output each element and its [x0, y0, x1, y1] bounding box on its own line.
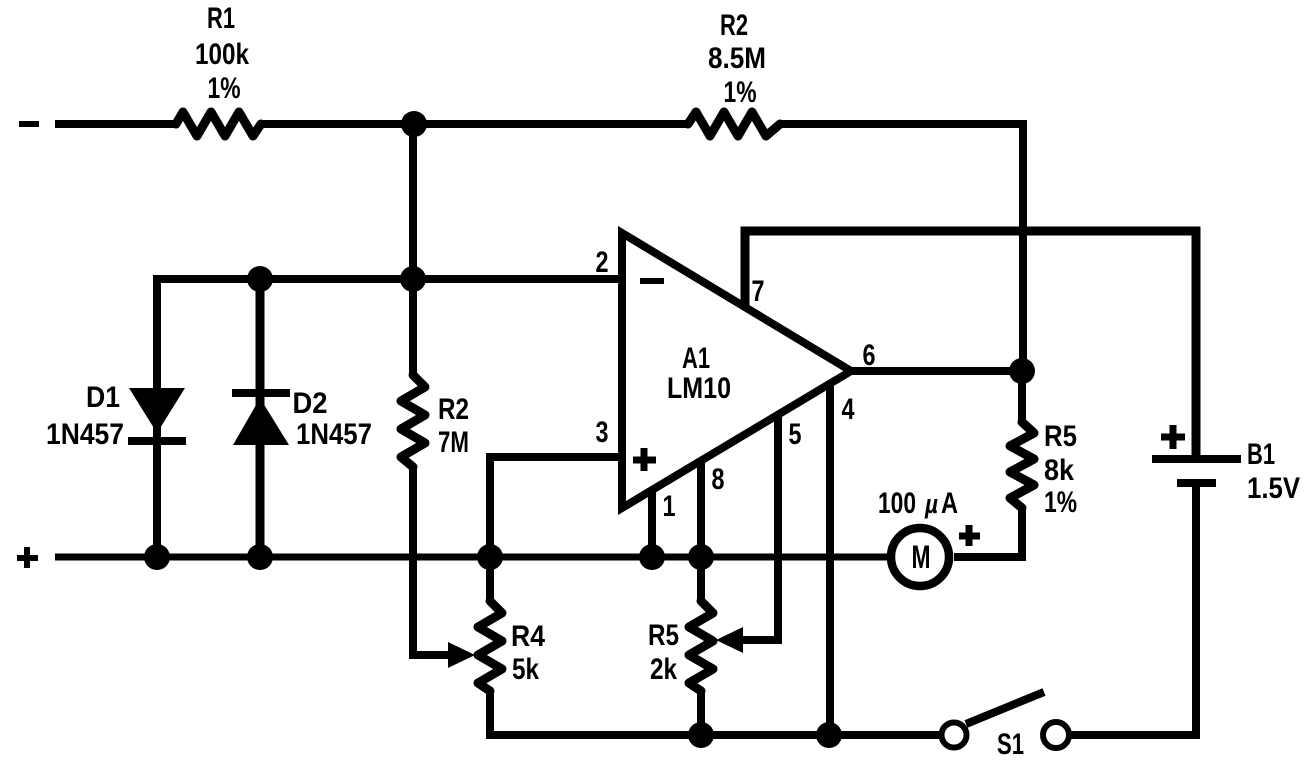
svg-text:8k: 8k [1044, 454, 1074, 487]
svg-text:B1: B1 [1247, 438, 1275, 471]
svg-text:4: 4 [842, 393, 855, 426]
svg-text:2: 2 [596, 246, 609, 279]
svg-text:A1: A1 [682, 342, 710, 375]
svg-text:M: M [912, 539, 931, 575]
svg-text:7M: 7M [438, 426, 469, 459]
svg-text:1%: 1% [208, 72, 241, 105]
svg-text:µ: µ [924, 489, 938, 519]
svg-text:1: 1 [663, 490, 676, 523]
svg-text:1.5V: 1.5V [1247, 472, 1300, 505]
svg-text:6: 6 [863, 339, 876, 372]
svg-text:1%: 1% [1044, 486, 1077, 519]
svg-text:R1: R1 [207, 2, 235, 35]
svg-text:5k: 5k [512, 653, 539, 686]
svg-text:R4: R4 [511, 620, 545, 653]
svg-text:100: 100 [878, 487, 916, 520]
svg-text:1%: 1% [724, 76, 757, 109]
svg-text:8: 8 [712, 463, 725, 496]
svg-text:LM10: LM10 [667, 372, 731, 405]
svg-text:R2: R2 [438, 393, 469, 426]
svg-text:3: 3 [596, 416, 609, 449]
svg-text:8.5M: 8.5M [708, 42, 766, 75]
svg-text:1N457: 1N457 [46, 418, 124, 451]
svg-text:A: A [941, 487, 958, 520]
svg-text:2k: 2k [650, 653, 677, 686]
svg-text:D1: D1 [86, 381, 120, 414]
svg-text:1N457: 1N457 [296, 418, 372, 451]
svg-text:D2: D2 [293, 387, 328, 420]
svg-text:R5: R5 [1044, 420, 1077, 453]
svg-text:S1: S1 [997, 728, 1024, 761]
svg-text:R2: R2 [720, 9, 748, 42]
svg-text:R5: R5 [648, 619, 679, 652]
svg-text:100k: 100k [195, 38, 249, 71]
svg-text:5: 5 [789, 418, 802, 451]
svg-text:7: 7 [752, 275, 765, 308]
